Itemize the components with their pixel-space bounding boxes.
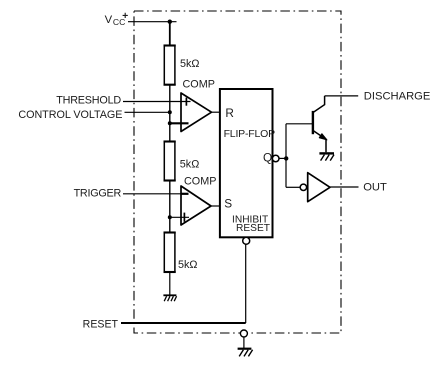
resistor R2 5k [164,142,175,181]
wire CONTROL VOLTAGE [125,111,170,113]
node: control voltage tap [168,110,172,114]
wire RESET [121,322,246,324]
wire: Vcc feed [128,21,177,23]
Vcc label [105,13,128,27]
wire DISCHARGE [325,95,359,97]
svg-text:CC: CC [113,17,125,27]
wire: divider chain R2 to R3 [169,181,171,233]
svg-text:5kΩ: 5kΩ [180,158,199,170]
Q output inversion bubble [272,155,279,162]
wire: Vcc to R1 [169,22,171,46]
node: Q net junction [284,156,288,160]
resistor R3 5k [164,233,175,273]
node: comp1 minus tap [168,121,172,125]
svg-text:5kΩ: 5kΩ [180,58,199,70]
wire: reset pin down [245,244,247,323]
transistor Q1 (discharge) [313,96,327,152]
wire: comp2 plus input (from divider) [170,216,189,218]
node: comp2 plus tap [168,215,172,219]
wire: comp1 minus input (from divider) [170,122,189,124]
svg-text:S: S [224,197,232,211]
svg-text:5kΩ: 5kΩ [178,259,197,271]
wire OUT [330,186,359,188]
wire: Q net vertical [285,124,287,188]
svg-text:COMP: COMP [184,175,216,187]
node: Vcc junction [168,20,172,24]
wire: R3 to ground [169,272,171,295]
wire: to transistor base [286,123,312,125]
wire: comp1 output to R [212,111,220,113]
svg-text:FLIP-FLOP: FLIP-FLOP [224,128,275,140]
svg-text:Q: Q [263,151,272,165]
wire: divider chain R1 to R2 [169,85,171,142]
GND pin circle [240,330,247,337]
IC boundary dash-dot border [134,11,341,333]
svg-text:COMP: COMP [183,79,215,91]
comp1 plus tick [185,98,187,106]
wire TRIGGER [123,193,182,195]
flip-flop U3 box [220,89,273,237]
ground (GND pin) [238,349,253,357]
wire: Q to node [279,157,286,159]
svg-text:DISCHARGE: DISCHARGE [364,91,431,103]
ground (transistor emitter) [319,153,334,160]
inverter U4 (output buffer) [300,184,306,190]
comp2 minus bar [181,193,189,195]
comp2 plus tick [183,213,185,222]
svg-text:THRESHOLD: THRESHOLD [56,94,121,106]
wire: comp2 output to S [211,205,220,207]
svg-text:RESET: RESET [83,319,119,331]
svg-text:R: R [225,106,234,120]
wire THRESHOLD [123,101,191,103]
flip-flop reset pin bubble [243,237,250,244]
svg-text:OUT: OUT [363,181,387,193]
resistor R1 5k [164,46,175,85]
svg-text:RESET: RESET [236,223,270,234]
svg-text:TRIGGER: TRIGGER [74,188,122,200]
svg-text:CONTROL VOLTAGE: CONTROL VOLTAGE [18,109,122,121]
svg-text:V: V [105,14,113,26]
ground (divider bottom) [163,295,176,301]
wire: GND pin to ground [243,337,245,348]
wire: Q net to inverter input [286,186,300,188]
